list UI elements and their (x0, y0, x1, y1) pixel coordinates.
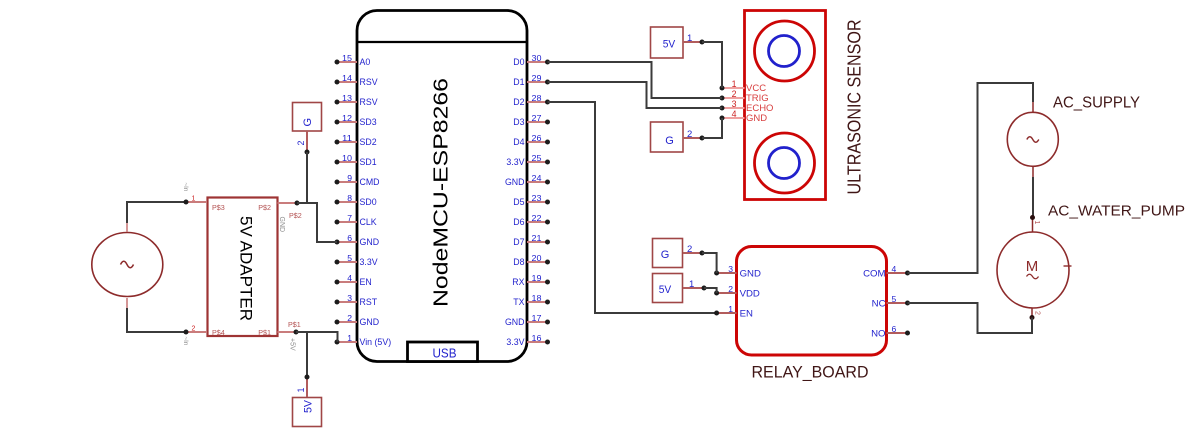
adapter pin P$3 (1 ~In) (182, 183, 207, 205)
wire U1 D2 (28) to relay EN (548, 102, 717, 313)
U2 pin 1 (VCC) (720, 79, 767, 94)
svg-text:25: 25 (532, 153, 542, 163)
svg-text:12: 12 (342, 113, 352, 123)
AC_SUPPLY pin stub top (1032, 102, 1034, 113)
svg-text:2: 2 (687, 129, 692, 140)
svg-text:2: 2 (296, 141, 306, 146)
svg-text:CLK: CLK (360, 217, 377, 227)
U1 pin 19 (RX) (512, 273, 550, 287)
5V ADAPTER PS1 body (208, 198, 278, 338)
svg-text:RX: RX (512, 277, 524, 287)
svg-text:29: 29 (532, 73, 542, 83)
svg-text:SD0: SD0 (360, 197, 377, 207)
svg-text:G: G (661, 249, 670, 261)
G1 pin 2 stub (296, 131, 310, 155)
svg-text:4: 4 (732, 109, 737, 119)
svg-text:P$3: P$3 (212, 203, 225, 212)
U1 pin 20 (D8) (513, 253, 550, 267)
wire U1 D1 (29) to U2 ECHO (548, 82, 723, 108)
adapter pin P$2 (GND out) (278, 201, 302, 233)
svg-text:7: 7 (347, 213, 352, 223)
svg-text:24: 24 (532, 173, 542, 183)
svg-text:3: 3 (728, 264, 733, 274)
wire AC source bottom to adapter P$4 (127, 308, 186, 332)
U1 pin 25 (3.3V) (506, 153, 550, 167)
K1 pin 1 (EN) (714, 304, 753, 319)
svg-text:CMD: CMD (360, 177, 380, 187)
svg-text:GND: GND (360, 237, 380, 247)
svg-text:2: 2 (1034, 311, 1041, 315)
svg-text:26: 26 (532, 133, 542, 143)
svg-text:RELAY_BOARD: RELAY_BOARD (752, 363, 869, 381)
U1 pin 28 (D2) (513, 93, 550, 107)
svg-text:13: 13 (342, 93, 352, 103)
svg-text:USB: USB (433, 347, 457, 361)
svg-text:1: 1 (687, 33, 692, 44)
svg-text:GND: GND (278, 217, 285, 233)
U1 pin 18 (TX) (513, 293, 550, 307)
svg-text:16: 16 (532, 333, 542, 343)
svg-text:21: 21 (532, 233, 542, 243)
svg-text:NodeMCU-ESP8266: NodeMCU-ESP8266 (430, 78, 453, 307)
svg-text:GND: GND (505, 177, 525, 187)
svg-text:~In: ~In (182, 183, 189, 192)
U1 pin 21 (D7) (513, 233, 550, 247)
U1 pin 13 (RSV) (335, 93, 378, 107)
svg-text:17: 17 (532, 313, 542, 323)
U1 pin 26 (D4) (513, 133, 550, 147)
svg-text:GND: GND (746, 113, 767, 124)
svg-text:RST: RST (360, 297, 378, 307)
M1 pin 1 (top) (1030, 215, 1040, 233)
svg-text:1: 1 (728, 304, 733, 314)
K1 pin 2 (VDD) (714, 284, 760, 299)
U1 pin 30 (D0) (513, 53, 550, 67)
svg-text:ULTRASONIC SENSOR: ULTRASONIC SENSOR (844, 20, 865, 195)
AC_SUPPLY source body (1007, 112, 1058, 166)
U1 pin 10 (SD1) (335, 153, 377, 167)
U1 pin 5 (3.3V) (335, 253, 378, 267)
U1 pin 6 (GND) (335, 233, 380, 247)
U1 pin 17 (GND) (505, 313, 550, 327)
svg-text:4: 4 (347, 273, 352, 283)
svg-text:3.3V: 3.3V (506, 337, 524, 347)
svg-text:GND: GND (740, 269, 761, 280)
svg-text:SD2: SD2 (360, 137, 377, 147)
AC_SUPPLY pin stub bottom (1032, 166, 1034, 177)
USB connector label box on U1 (408, 342, 478, 362)
wire G1 down to GND node (306, 152, 308, 203)
svg-text:1: 1 (192, 196, 196, 203)
svg-text:20: 20 (532, 253, 542, 263)
svg-text:2: 2 (728, 284, 733, 294)
adapter pin P$4 (2 ~In) (182, 326, 207, 346)
U1 pin 2 (GND) (335, 313, 380, 327)
svg-text:6: 6 (892, 324, 897, 334)
svg-text:15: 15 (342, 53, 352, 63)
svg-text:8: 8 (347, 193, 352, 203)
svg-text:TX: TX (513, 297, 524, 307)
svg-text:9: 9 (347, 173, 352, 183)
U2 pin 2 (TRIG) (720, 89, 769, 104)
wire relay NC to M1 pin 2 (908, 303, 1033, 333)
svg-text:5: 5 (892, 294, 897, 304)
U1 pin 16 (3.3V) (506, 333, 550, 347)
U1 pin 14 (RSV) (335, 73, 378, 87)
wire PWR2 to U2 VCC (702, 42, 722, 88)
U1 pin 4 (EN) (335, 273, 372, 287)
svg-text:10: 10 (342, 153, 352, 163)
svg-text:G: G (665, 135, 674, 147)
5V supply symbol box PWR1 (bottom) (293, 398, 322, 427)
svg-text:GND: GND (360, 317, 380, 327)
svg-text:27: 27 (532, 113, 542, 123)
svg-text:2: 2 (687, 244, 692, 255)
K1 pin 5 (NC) (872, 294, 910, 309)
svg-text:18: 18 (532, 293, 542, 303)
svg-text:14: 14 (342, 73, 352, 83)
AC_WATER_PUMP motor M1 body (997, 232, 1072, 308)
wire G3 to relay GND (702, 253, 717, 273)
svg-text:+5V: +5V (289, 338, 296, 351)
svg-text:3: 3 (347, 293, 352, 303)
wire +5V node down to 5V symbol (306, 332, 308, 377)
wire PWR3 to relay VDD (704, 288, 717, 293)
svg-text:D8: D8 (513, 257, 524, 267)
svg-text:~In: ~In (182, 337, 189, 346)
svg-text:NC: NC (872, 299, 886, 310)
svg-text:2: 2 (347, 313, 352, 323)
U2 pin 4 (GND) (720, 109, 768, 124)
U1 pin 3 (RST) (335, 293, 378, 307)
svg-text:5V: 5V (659, 284, 672, 296)
AC source pin stub bottom (126, 298, 128, 308)
U1 pin 1 (Vin (5V)) (335, 333, 392, 347)
wire adapter P$1 to U1 Vin pin 1 (296, 332, 338, 342)
svg-text:RSV: RSV (360, 77, 378, 87)
K1 pin 6 (NO) (871, 324, 910, 339)
5V supply symbol box PWR3 (relay VDD) (653, 274, 683, 303)
svg-text:1: 1 (347, 333, 352, 343)
ground symbol box G3 (relay GND) (653, 239, 683, 268)
5V supply symbol box PWR2 (sensor VCC) (651, 27, 684, 58)
svg-text:1: 1 (1033, 221, 1040, 225)
svg-text:5V ADAPTER: 5V ADAPTER (237, 216, 256, 321)
svg-text:2: 2 (192, 326, 196, 333)
svg-text:P$1: P$1 (258, 328, 271, 337)
U1 pin 27 (D3) (513, 113, 550, 127)
svg-text:A0: A0 (360, 57, 371, 67)
PWR3 pin 1 stub (683, 279, 707, 291)
adapter pin P$1 (+5V out) (278, 320, 301, 351)
wire GND node to U1 pin 6 (297, 203, 337, 242)
U1 pin 15 (A0) (335, 53, 371, 67)
AC mains source (wall supply) (92, 233, 163, 297)
wire G2 to U2 GND (702, 118, 722, 138)
svg-text:5V: 5V (663, 39, 676, 51)
U2 pin 3 (ECHO) (720, 99, 774, 114)
svg-text:D6: D6 (513, 217, 524, 227)
wire AC_SUPPLY to AC_WATER_PUMP pin 1 (1032, 177, 1034, 218)
G2 pin 2 stub (683, 129, 705, 141)
svg-text:P$4: P$4 (212, 328, 225, 337)
PWR1 pin 1 stub (296, 375, 310, 398)
U1 pin 23 (D5) (513, 193, 550, 207)
svg-text:3.3V: 3.3V (506, 157, 524, 167)
svg-text:AC_SUPPLY: AC_SUPPLY (1053, 95, 1140, 112)
U1 pin 24 (GND) (505, 173, 550, 187)
U1 pin 12 (SD3) (335, 113, 377, 127)
svg-text:Vin (5V): Vin (5V) (360, 337, 392, 347)
svg-text:SD3: SD3 (360, 117, 377, 127)
wire U1 D0 (30) to U2 TRIG (548, 62, 723, 98)
U1 pin 9 (CMD) (335, 173, 380, 187)
svg-text:P$2: P$2 (289, 211, 302, 220)
svg-text:D3: D3 (513, 117, 524, 127)
U1 pin 29 (D1) (513, 73, 550, 87)
svg-text:D4: D4 (513, 137, 524, 147)
K1 pin 3 (GND) (714, 264, 761, 279)
svg-text:19: 19 (532, 273, 542, 283)
svg-text:6: 6 (347, 233, 352, 243)
svg-text:28: 28 (532, 93, 542, 103)
svg-text:RSV: RSV (360, 97, 378, 107)
svg-text:D5: D5 (513, 197, 524, 207)
svg-text:30: 30 (532, 53, 542, 63)
G3 pin 2 stub (683, 244, 705, 256)
U1 pin 22 (D6) (513, 213, 550, 227)
svg-text:VDD: VDD (740, 289, 760, 300)
PWR2 pin 1 stub (683, 33, 705, 45)
svg-text:EN: EN (740, 309, 753, 320)
svg-text:G: G (302, 118, 314, 127)
ground symbol box G2 (sensor GND) (651, 122, 684, 152)
U1 pin 11 (SD2) (335, 133, 377, 147)
svg-text:5V: 5V (303, 399, 315, 413)
svg-text:NO: NO (871, 329, 885, 340)
U1 pin 8 (SD0) (335, 193, 377, 207)
NodeMCU-ESP8266 module U1 body (357, 11, 527, 362)
svg-text:1: 1 (296, 388, 306, 393)
M1 pin 2 (bottom) (1030, 308, 1041, 320)
U1 pin 7 (CLK) (335, 213, 377, 227)
AC source pin stub top (126, 223, 128, 232)
svg-text:GND: GND (505, 317, 525, 327)
svg-text:COM: COM (863, 269, 885, 280)
svg-text:EN: EN (360, 277, 372, 287)
svg-text:D1: D1 (513, 77, 524, 87)
svg-text:P$2: P$2 (258, 203, 271, 212)
svg-text:23: 23 (532, 193, 542, 203)
svg-text:1: 1 (689, 279, 694, 290)
svg-text:M: M (1026, 258, 1039, 275)
svg-text:D0: D0 (513, 57, 524, 67)
svg-text:3.3V: 3.3V (360, 257, 378, 267)
K1 pin 4 (COM) (863, 264, 910, 279)
ULTRASONIC SENSOR module U2 body (745, 11, 826, 200)
wire relay COM to AC_SUPPLY (908, 83, 1034, 273)
svg-text:1: 1 (732, 79, 737, 89)
svg-text:SD1: SD1 (360, 157, 377, 167)
svg-text:D2: D2 (513, 97, 524, 107)
wire AC source top to adapter P$3 (127, 202, 186, 223)
svg-text:11: 11 (342, 133, 352, 143)
svg-text:5: 5 (347, 253, 352, 263)
svg-text:3: 3 (732, 99, 737, 109)
RELAY_BOARD module K1 body (737, 247, 887, 356)
svg-text:AC_WATER_PUMP: AC_WATER_PUMP (1048, 203, 1185, 220)
svg-text:D7: D7 (513, 237, 524, 247)
ground symbol box G1 (to U1 GND pin 6) (293, 103, 322, 132)
svg-text:4: 4 (892, 264, 897, 274)
svg-text:P$1: P$1 (288, 320, 301, 329)
svg-text:22: 22 (532, 213, 542, 223)
svg-text:2: 2 (732, 89, 737, 99)
